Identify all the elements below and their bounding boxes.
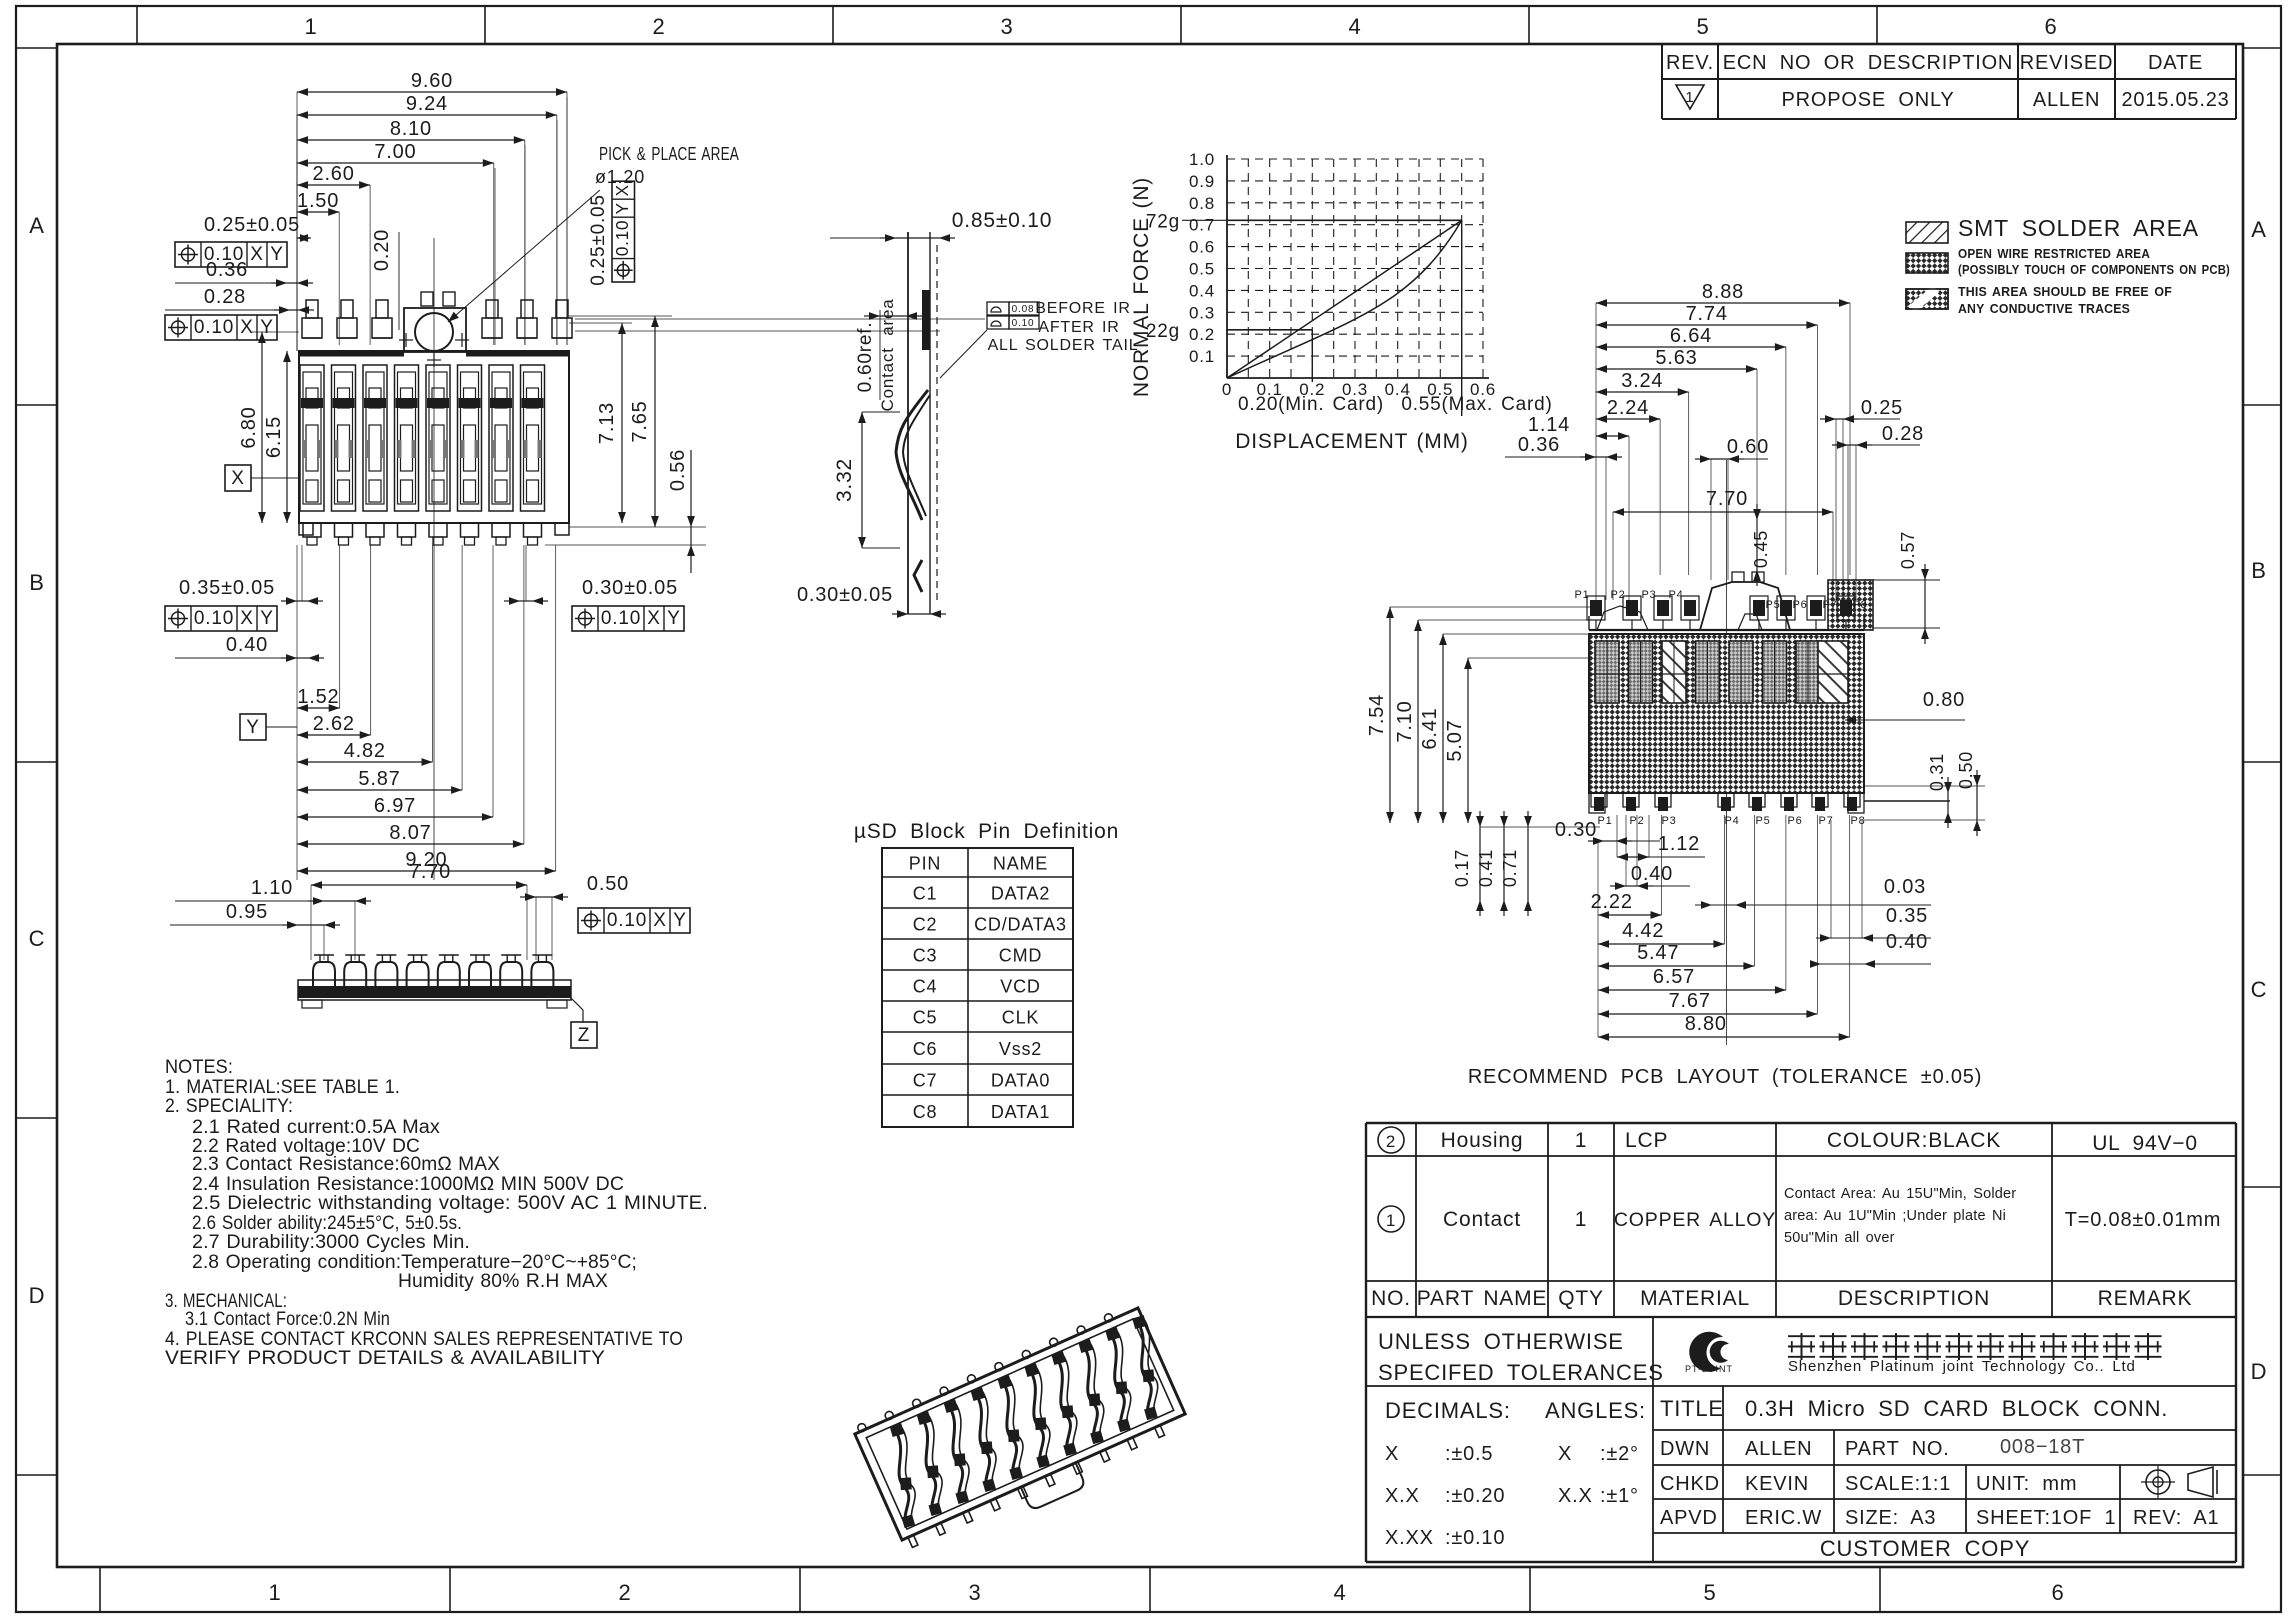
- svg-text:1: 1: [1575, 1208, 1587, 1231]
- svg-text:0.10: 0.10: [613, 220, 632, 256]
- svg-text:0.80: 0.80: [1923, 689, 1965, 711]
- svg-text:CD/DATA3: CD/DATA3: [974, 915, 1067, 935]
- svg-text:DATA0: DATA0: [991, 1071, 1050, 1091]
- svg-text:008−18T: 008−18T: [2000, 1436, 2085, 1458]
- svg-text:0.3H Micro SD CARD BLOCK: 0.3H Micro SD CARD BLOCK CONN.: [1745, 1396, 2168, 1421]
- svg-text:KEVIN: KEVIN: [1745, 1473, 1809, 1495]
- svg-text:1: 1: [1575, 1129, 1587, 1152]
- svg-text:ANY CONDUCTIVE TRACES: ANY CONDUCTIVE TRACES: [1958, 301, 2130, 316]
- svg-text:0.2: 0.2: [1189, 325, 1215, 344]
- svg-text:1.50: 1.50: [297, 190, 339, 212]
- svg-text:2.5 Dielectric withstanding: 2.5 Dielectric withstanding voltage: 500…: [192, 1193, 708, 1214]
- svg-text:7.70: 7.70: [1706, 488, 1748, 510]
- svg-text:PART NAME: PART NAME: [1417, 1287, 1547, 1310]
- svg-text:0.4: 0.4: [1189, 281, 1215, 300]
- svg-text:1. MATERIAL:SEE TABLE 1.: 1. MATERIAL:SEE TABLE 1.: [165, 1077, 400, 1098]
- svg-text:area: Au 1U"Min ;Under plat: area: Au 1U"Min ;Under plate Ni: [1784, 1208, 2006, 1224]
- svg-text:DESCRIPTION: DESCRIPTION: [1838, 1287, 1990, 1310]
- svg-text:7.10: 7.10: [1394, 700, 1416, 742]
- svg-text:4. PLEASE CONTACT KRCONN S: 4. PLEASE CONTACT KRCONN SALES REPRESENT…: [165, 1329, 683, 1350]
- svg-text:0.36: 0.36: [206, 259, 248, 281]
- svg-text:X: X: [1558, 1443, 1572, 1465]
- svg-text:0.85±0.10: 0.85±0.10: [952, 209, 1052, 232]
- svg-text:APVD: APVD: [1660, 1507, 1718, 1529]
- svg-text:DWN: DWN: [1660, 1438, 1710, 1460]
- svg-text:7.00: 7.00: [374, 141, 416, 163]
- svg-text:6: 6: [2044, 14, 2057, 39]
- svg-text:2.62: 2.62: [313, 713, 355, 735]
- svg-text:SPECIFED TOLERANCES: SPECIFED TOLERANCES: [1378, 1360, 1664, 1385]
- svg-text:P7: P7: [1822, 599, 1837, 611]
- svg-text:9.60: 9.60: [411, 70, 453, 92]
- svg-text:ANGLES:: ANGLES:: [1545, 1398, 1646, 1423]
- svg-text:2.22: 2.22: [1591, 891, 1633, 913]
- svg-text:1: 1: [1386, 1211, 1396, 1230]
- svg-text:PART NO.: PART NO.: [1845, 1438, 1950, 1460]
- svg-text:0.41: 0.41: [1476, 849, 1496, 887]
- svg-text:6.57: 6.57: [1653, 966, 1695, 988]
- svg-text:REV: A1: REV: A1: [2133, 1507, 2219, 1529]
- svg-text:0.25±0.05: 0.25±0.05: [204, 214, 300, 236]
- svg-text:6.64: 6.64: [1670, 325, 1712, 347]
- svg-text:0.6: 0.6: [1189, 238, 1215, 257]
- svg-text:DISPLACEMENT (MM): DISPLACEMENT (MM): [1235, 430, 1468, 453]
- svg-text:D: D: [2251, 1359, 2268, 1384]
- svg-text:P6: P6: [1787, 815, 1802, 827]
- svg-text:Contact: Contact: [1443, 1208, 1521, 1231]
- svg-text:SIZE: A3: SIZE: A3: [1845, 1507, 1936, 1529]
- svg-text:P1: P1: [1574, 589, 1589, 601]
- svg-text:0.20: 0.20: [371, 229, 393, 271]
- svg-text:4: 4: [1333, 1580, 1346, 1605]
- svg-text:3.32: 3.32: [833, 458, 856, 502]
- svg-text:X: X: [240, 608, 253, 629]
- svg-text:P5: P5: [1765, 599, 1780, 611]
- svg-text:0.60: 0.60: [1727, 436, 1769, 458]
- svg-text:Y: Y: [260, 608, 273, 629]
- svg-text:B: B: [2251, 558, 2266, 583]
- svg-text:ALLEN: ALLEN: [2033, 89, 2100, 111]
- svg-text:2: 2: [652, 14, 665, 39]
- svg-text:0.30: 0.30: [1555, 819, 1597, 841]
- svg-text:X.X: X.X: [1385, 1485, 1420, 1507]
- svg-text:AFTER IR: AFTER IR: [1038, 319, 1119, 336]
- svg-text:0.55(Max. Card): 0.55(Max. Card): [1401, 394, 1552, 415]
- svg-text:X: X: [613, 184, 632, 196]
- svg-text:PROPOSE ONLY: PROPOSE ONLY: [1781, 89, 1954, 111]
- svg-text:REV.: REV.: [1666, 52, 1714, 74]
- svg-text::±0.5: :±0.5: [1445, 1443, 1493, 1465]
- svg-text:NO.: NO.: [1371, 1287, 1411, 1310]
- svg-text:2.7 Durability:3000 Cycles: 2.7 Durability:3000 Cycles Min.: [192, 1232, 470, 1253]
- svg-text:1.10: 1.10: [251, 877, 293, 899]
- svg-text:X: X: [1385, 1443, 1399, 1465]
- svg-text:REVISED: REVISED: [2020, 52, 2113, 74]
- svg-text:SHEET:1OF 1: SHEET:1OF 1: [1976, 1507, 2116, 1529]
- svg-text:1.0: 1.0: [1189, 150, 1215, 169]
- svg-text:0.10: 0.10: [601, 608, 641, 629]
- svg-text:Y: Y: [667, 608, 680, 629]
- svg-text:0.8: 0.8: [1189, 194, 1215, 213]
- svg-text:VERIFY PRODUCT DETAILS & A: VERIFY PRODUCT DETAILS & AVAILABILITY: [165, 1348, 605, 1369]
- svg-text:REMARK: REMARK: [2098, 1287, 2193, 1310]
- svg-text:0.9: 0.9: [1189, 172, 1215, 191]
- svg-text:0.10: 0.10: [607, 910, 647, 931]
- svg-text:7.74: 7.74: [1686, 303, 1728, 325]
- svg-text:X.XX: X.XX: [1385, 1527, 1434, 1549]
- svg-text:4.82: 4.82: [344, 740, 386, 762]
- svg-text:CHKD: CHKD: [1660, 1473, 1720, 1495]
- svg-text:C6: C6: [913, 1039, 938, 1059]
- svg-text:4: 4: [1348, 14, 1361, 39]
- svg-text:PICK & PLACE AREA: PICK & PLACE AREA: [599, 144, 739, 164]
- svg-text:0.28: 0.28: [204, 286, 246, 308]
- svg-text:X: X: [250, 244, 263, 265]
- svg-text:5.07: 5.07: [1444, 719, 1466, 761]
- svg-text:7.70: 7.70: [409, 861, 451, 883]
- svg-text:0.10: 0.10: [194, 608, 234, 629]
- svg-text:0.35: 0.35: [1886, 905, 1928, 927]
- svg-text:Y: Y: [613, 202, 632, 214]
- svg-text:LCP: LCP: [1625, 1129, 1668, 1152]
- svg-text:6.15: 6.15: [263, 416, 285, 458]
- svg-text:C: C: [29, 926, 46, 951]
- svg-text:0: 0: [1222, 380, 1232, 399]
- svg-text:NOTES:: NOTES:: [165, 1057, 233, 1078]
- svg-text:PIN: PIN: [909, 854, 941, 874]
- svg-text:0.40: 0.40: [226, 634, 268, 656]
- svg-text:A: A: [29, 213, 44, 238]
- svg-text:0.25: 0.25: [1861, 397, 1903, 419]
- svg-text:0.25±0.05: 0.25±0.05: [588, 194, 609, 286]
- svg-text:1.52: 1.52: [297, 686, 339, 708]
- svg-text:7.54: 7.54: [1366, 694, 1388, 736]
- svg-text:0.71: 0.71: [1500, 849, 1520, 887]
- svg-text:DATE: DATE: [2148, 52, 2203, 74]
- svg-text:2. SPECIALITY:: 2. SPECIALITY:: [165, 1096, 293, 1117]
- svg-text:8.88: 8.88: [1702, 281, 1744, 303]
- svg-text:ALL SOLDER TAIL: ALL SOLDER TAIL: [988, 337, 1139, 354]
- svg-text:1: 1: [1685, 89, 1694, 106]
- svg-text:MATERIAL: MATERIAL: [1640, 1287, 1750, 1310]
- svg-text:0.95: 0.95: [226, 901, 268, 923]
- svg-text:Y: Y: [673, 910, 686, 931]
- svg-text:BEFORE IR: BEFORE IR: [1035, 300, 1130, 317]
- svg-text:8.80: 8.80: [1685, 1013, 1727, 1035]
- svg-text:C5: C5: [913, 1008, 938, 1028]
- svg-text:Vss2: Vss2: [999, 1039, 1042, 1059]
- svg-text:Contact Area: Au 15U"Min, S: Contact Area: Au 15U"Min, Solder: [1784, 1186, 2016, 1202]
- svg-text:DATA2: DATA2: [991, 884, 1050, 904]
- svg-text:ø1.20: ø1.20: [595, 167, 645, 187]
- svg-text:DATA1: DATA1: [991, 1102, 1050, 1122]
- svg-text:C4: C4: [913, 977, 938, 997]
- svg-text:C8: C8: [913, 1102, 938, 1122]
- svg-text:5.87: 5.87: [358, 768, 400, 790]
- svg-text:0.50: 0.50: [587, 873, 629, 895]
- svg-text:0.10: 0.10: [1012, 318, 1035, 329]
- svg-text:P1: P1: [1597, 815, 1612, 827]
- svg-text:C2: C2: [913, 915, 938, 935]
- svg-text::±0.10: :±0.10: [1445, 1527, 1505, 1549]
- svg-text:2.6 Solder ability:245±5°C,: 2.6 Solder ability:245±5°C, 5±0.5s.: [192, 1213, 462, 1234]
- svg-text:1: 1: [268, 1580, 281, 1605]
- svg-text:CUSTOMER COPY: CUSTOMER COPY: [1820, 1536, 2030, 1561]
- svg-text:Humidity 80% R.H MAX: Humidity 80% R.H MAX: [398, 1271, 608, 1292]
- svg-text:0.10: 0.10: [194, 317, 234, 338]
- svg-text:0.17: 0.17: [1452, 849, 1472, 887]
- svg-text:VCD: VCD: [1000, 977, 1040, 997]
- svg-text:6.80: 6.80: [238, 406, 260, 448]
- svg-text:8.07: 8.07: [389, 822, 431, 844]
- svg-text:0.30±0.05: 0.30±0.05: [797, 584, 893, 606]
- svg-text:P4: P4: [1724, 815, 1739, 827]
- svg-text:X: X: [231, 468, 244, 489]
- svg-text:1: 1: [304, 14, 317, 39]
- svg-text:0.36: 0.36: [1518, 434, 1560, 456]
- svg-text:0.5: 0.5: [1189, 260, 1215, 279]
- svg-text:P3: P3: [1641, 589, 1656, 601]
- svg-text:P3: P3: [1661, 815, 1676, 827]
- svg-text:5.63: 5.63: [1655, 347, 1697, 369]
- svg-text:3.1 Contact Force:0.2N Min: 3.1 Contact Force:0.2N Min: [185, 1309, 390, 1330]
- svg-text:(POSSIBLY TOUCH OF COMPONENTS: (POSSIBLY TOUCH OF COMPONENTS ON PCB): [1958, 262, 2230, 277]
- svg-text:2.8 Operating condition:Temp: 2.8 Operating condition:Temperature−20°C…: [192, 1252, 637, 1273]
- svg-text:NORMAL FORCE (N): NORMAL FORCE (N): [1130, 177, 1153, 397]
- svg-text:C7: C7: [913, 1071, 938, 1091]
- svg-text:0.45: 0.45: [1751, 530, 1771, 568]
- svg-text:0.35±0.05: 0.35±0.05: [179, 577, 275, 599]
- svg-text:0.7: 0.7: [1189, 216, 1215, 235]
- svg-text:2.60: 2.60: [313, 163, 355, 185]
- svg-text:X: X: [647, 608, 660, 629]
- svg-text:B: B: [29, 570, 44, 595]
- svg-text:5: 5: [1703, 1580, 1716, 1605]
- svg-text:0.57: 0.57: [1898, 531, 1918, 569]
- svg-text:3: 3: [968, 1580, 981, 1605]
- svg-text:2: 2: [1386, 1132, 1396, 1151]
- svg-text:D: D: [29, 1283, 46, 1308]
- svg-text:6.41: 6.41: [1419, 707, 1441, 749]
- svg-text:SCALE:1:1: SCALE:1:1: [1845, 1473, 1951, 1495]
- svg-text:PT-JOINT: PT-JOINT: [1685, 1364, 1733, 1374]
- svg-text:P6: P6: [1792, 599, 1807, 611]
- svg-text:2.4 Insulation Resistance:10: 2.4 Insulation Resistance:1000MΩ MIN 500…: [192, 1174, 624, 1195]
- svg-text:P5: P5: [1755, 815, 1770, 827]
- svg-text:0.31: 0.31: [1927, 753, 1947, 791]
- svg-text:THIS AREA SHOULD BE FREE OF: THIS AREA SHOULD BE FREE OF: [1958, 284, 2172, 299]
- svg-text:RECOMMEND PCB LAYOUT (TOLER: RECOMMEND PCB LAYOUT (TOLERANCE ±0.05): [1468, 1066, 1982, 1088]
- svg-text:C1: C1: [913, 884, 938, 904]
- svg-text:NAME: NAME: [993, 854, 1048, 874]
- svg-text:SMT SOLDER AREA: SMT SOLDER AREA: [1958, 215, 2199, 241]
- svg-text:2.1 Rated current:0.5A Max: 2.1 Rated current:0.5A Max: [192, 1117, 440, 1138]
- svg-text:CLK: CLK: [1002, 1008, 1039, 1028]
- svg-text::±0.20: :±0.20: [1445, 1485, 1505, 1507]
- svg-text:ECN NO OR DESCRIPTION: ECN NO OR DESCRIPTION: [1723, 52, 2013, 74]
- svg-text:UNIT: mm: UNIT: mm: [1976, 1473, 2077, 1495]
- svg-text:COPPER ALLOY: COPPER ALLOY: [1614, 1209, 1776, 1231]
- svg-text:ERIC.W: ERIC.W: [1745, 1507, 1822, 1529]
- svg-text:X.X: X.X: [1558, 1485, 1593, 1507]
- svg-text:50u"Min all over: 50u"Min all over: [1784, 1230, 1895, 1246]
- svg-text:7.13: 7.13: [596, 402, 618, 444]
- svg-text:T=0.08±0.01mm: T=0.08±0.01mm: [2065, 1209, 2221, 1231]
- svg-text:Y: Y: [246, 717, 259, 738]
- svg-text:TITLE: TITLE: [1660, 1396, 1724, 1421]
- svg-text:2.24: 2.24: [1607, 397, 1649, 419]
- svg-text:2: 2: [618, 1580, 631, 1605]
- svg-text:2015.05.23: 2015.05.23: [2121, 89, 2229, 111]
- svg-text:ALLEN: ALLEN: [1745, 1438, 1812, 1460]
- svg-text:2.3 Contact Resistance:60mΩ: 2.3 Contact Resistance:60mΩ MAX: [192, 1154, 500, 1175]
- svg-text:0.50: 0.50: [1956, 751, 1976, 789]
- svg-text:CMD: CMD: [999, 946, 1042, 966]
- svg-text:0.20(Min. Card): 0.20(Min. Card): [1238, 394, 1384, 415]
- svg-text:9.24: 9.24: [406, 93, 448, 115]
- svg-text:Housing: Housing: [1441, 1129, 1524, 1152]
- svg-text:UNLESS OTHERWISE: UNLESS OTHERWISE: [1378, 1329, 1624, 1354]
- svg-text:0.28: 0.28: [1882, 423, 1924, 445]
- svg-text:P8: P8: [1852, 599, 1867, 611]
- svg-text:7.65: 7.65: [629, 400, 651, 442]
- svg-text:Z: Z: [578, 1025, 590, 1046]
- svg-text:COLOUR:BLACK: COLOUR:BLACK: [1827, 1129, 2001, 1152]
- svg-text:5: 5: [1696, 14, 1709, 39]
- svg-text::±2°: :±2°: [1600, 1443, 1639, 1465]
- svg-text:0.1: 0.1: [1189, 347, 1215, 366]
- svg-text:P8: P8: [1850, 815, 1865, 827]
- svg-text:Shenzhen Platinum joint Tec: Shenzhen Platinum joint Technology Co.. …: [1788, 1358, 2136, 1375]
- svg-text:0.30±0.05: 0.30±0.05: [582, 577, 678, 599]
- svg-text:Y: Y: [270, 244, 283, 265]
- svg-text:X: X: [653, 910, 666, 931]
- svg-text:3.24: 3.24: [1621, 370, 1663, 392]
- svg-text:4.42: 4.42: [1622, 920, 1664, 942]
- svg-text:C: C: [2251, 977, 2268, 1002]
- svg-text:8.10: 8.10: [390, 118, 432, 140]
- svg-text:0.60ref.: 0.60ref.: [855, 322, 876, 393]
- svg-text:0.3: 0.3: [1189, 303, 1215, 322]
- svg-text:3: 3: [1000, 14, 1013, 39]
- svg-text:X: X: [240, 317, 253, 338]
- svg-text::±1°: :±1°: [1600, 1485, 1639, 1507]
- svg-text:0.08: 0.08: [1012, 304, 1035, 315]
- svg-text:OPEN WIRE RESTRICTED AREA: OPEN WIRE RESTRICTED AREA: [1958, 246, 2150, 261]
- svg-text:P4: P4: [1668, 589, 1683, 601]
- svg-text:1.14: 1.14: [1528, 414, 1570, 436]
- svg-text:7.67: 7.67: [1669, 990, 1711, 1012]
- svg-text:QTY: QTY: [1558, 1287, 1604, 1310]
- svg-text:5.47: 5.47: [1637, 942, 1679, 964]
- svg-text:6.97: 6.97: [374, 795, 416, 817]
- svg-text:0.56: 0.56: [667, 449, 689, 491]
- svg-text:A: A: [2251, 217, 2266, 242]
- svg-text:0.40: 0.40: [1886, 931, 1928, 953]
- svg-text:6: 6: [2051, 1580, 2064, 1605]
- svg-text:C3: C3: [913, 946, 938, 966]
- svg-text:UL 94V−0: UL 94V−0: [2092, 1132, 2198, 1155]
- svg-text:µSD Block Pin Definition: µSD Block Pin Definition: [854, 820, 1119, 843]
- svg-text:0.03: 0.03: [1884, 876, 1926, 898]
- svg-text:1.12: 1.12: [1658, 833, 1700, 855]
- svg-text:DECIMALS:: DECIMALS:: [1385, 1398, 1511, 1423]
